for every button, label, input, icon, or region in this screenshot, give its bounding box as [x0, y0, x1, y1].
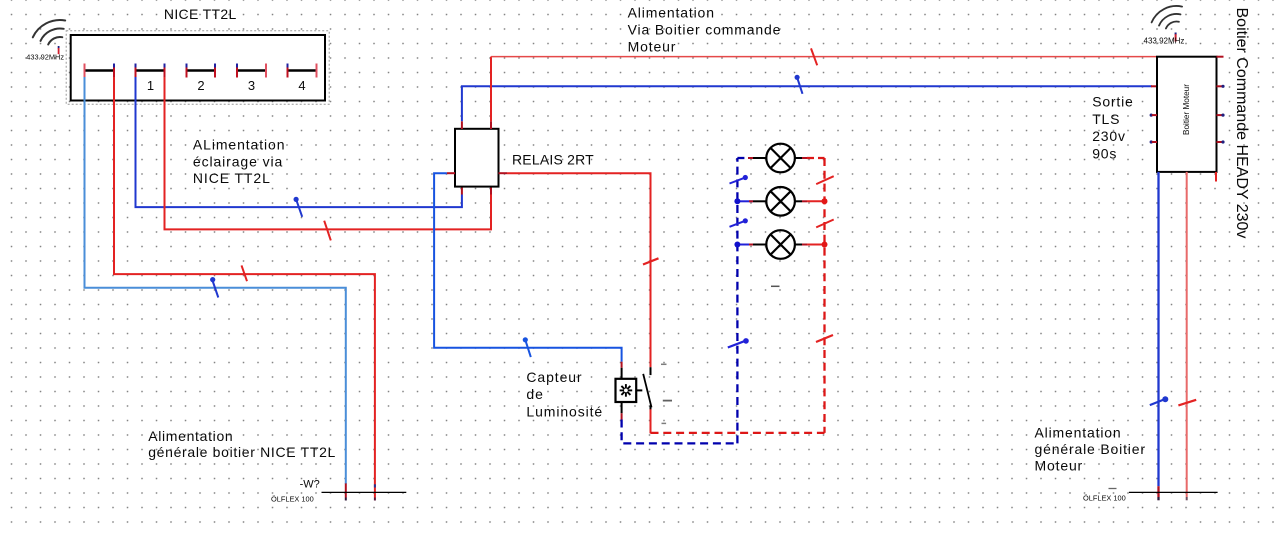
- slash mark blue on long navy wire: [795, 75, 803, 94]
- svg-text:RELAIS 2RT: RELAIS 2RT: [512, 152, 594, 168]
- terminal strip bar 4: [288, 69, 317, 71]
- terminal tick Boitier Moteur right y115: [1217, 114, 1225, 117]
- svg-text:4: 4: [298, 78, 305, 93]
- slash mark red on long red wire: [811, 48, 817, 65]
- wire red RELAIS right pin to switch top contact: [507, 173, 651, 367]
- NICE TT2L box: [71, 35, 325, 101]
- svg-text:433.92MHz: 433.92MHz: [1144, 37, 1185, 46]
- antenna right terminal tick: [1175, 33, 1177, 35]
- slash mark red on W2: [242, 265, 248, 281]
- capteur terminal tick top: [621, 362, 623, 368]
- terminal tick RELAIS bottom-right: [490, 186, 492, 194]
- slash mark red on red bus lower: [816, 220, 834, 228]
- terminal tick RELAIS left: [447, 172, 455, 174]
- svg-text:Boitier Commande HEADY 230v: Boitier Commande HEADY 230v: [1233, 8, 1250, 239]
- capteur de luminosite box: [616, 379, 637, 402]
- capteur terminal tick bottom: [621, 413, 623, 419]
- slash mark blue on bottom-right navy wire: [1150, 396, 1169, 405]
- slash mark red on bottom-right red wire: [1178, 400, 1196, 406]
- capteur top lead: [621, 368, 623, 379]
- switch blade: [643, 374, 651, 408]
- junction dot red L3: [822, 242, 828, 248]
- Boitier Moteur box: [1157, 57, 1217, 172]
- terminal tick Boitier Moteur right top corner: [1217, 56, 1224, 58]
- terminal strip bar 3: [237, 69, 266, 71]
- junction dot blue L2: [734, 198, 740, 204]
- slash mark blue on lamp bus lower: [730, 218, 748, 227]
- selection dashed rect around NICE TT2L: [66, 31, 329, 105]
- terminal tick Boitier Moteur left y115: [1150, 114, 1157, 117]
- terminal tick RELAIS right: [499, 172, 508, 174]
- gray dash above OLFLEX right: [1109, 488, 1117, 490]
- capteur bottom lead: [621, 402, 623, 413]
- slash mark blue on lamp bus upper: [730, 175, 748, 184]
- antenna left terminal tick: [58, 46, 60, 49]
- gray dash under lamps: [771, 285, 780, 287]
- switch fixed contact top: [650, 367, 652, 375]
- slash mark red on W4: [324, 221, 331, 241]
- terminal tick RELAIS bottom-left: [461, 186, 463, 194]
- slash mark red on red bus third: [816, 335, 833, 342]
- slash mark blue on W1: [210, 277, 218, 298]
- wire end tick navy: [1157, 486, 1159, 497]
- dashed navy lamp bus vertical: [736, 158, 738, 443]
- wire red RELAIS top-right pin to long horizontal to Boitier Moteur top: [490, 57, 492, 122]
- svg-text:Boitier Moteur: Boitier Moteur: [1182, 84, 1191, 135]
- svg-text:-W?: -W?: [300, 479, 320, 491]
- slash mark blue on W3: [294, 197, 303, 217]
- stub red Boitier Moteur bottom-right: [1215, 172, 1217, 182]
- wire red Boitier Moteur bottom-middle to cable: [1186, 172, 1188, 497]
- svg-text:NICE TT2L: NICE TT2L: [164, 6, 237, 22]
- slash mark blue on capteur wire: [523, 337, 531, 357]
- slash mark blue on lamp bus third: [728, 338, 749, 347]
- terminal tick RELAIS top-right: [490, 121, 492, 129]
- lamp L3: [737, 244, 753, 246]
- slash mark red on red bus upper: [816, 176, 834, 184]
- svg-text:ÖLFLEX 100: ÖLFLEX 100: [271, 495, 314, 504]
- svg-text:1: 1: [147, 78, 154, 93]
- terminal strip bar 1: [136, 69, 165, 71]
- slash mark red on switch feed wire: [643, 258, 659, 264]
- svg-text:2: 2: [197, 78, 204, 93]
- antenna right 433.92MHz: [1152, 6, 1183, 29]
- terminal tick Boitier Moteur right y142: [1217, 140, 1225, 143]
- relay box RELAIS 2RT: [455, 129, 499, 187]
- wire navy Boitier Moteur bottom-left to cable: [1157, 172, 1159, 486]
- terminal tick Boitier Moteur left y142: [1150, 140, 1157, 143]
- gray dash marks near capteur: [661, 364, 672, 423]
- cable line bottom right: [1129, 491, 1218, 493]
- lamp L2: [737, 200, 753, 202]
- terminal strip bar 0: [85, 69, 115, 71]
- wire navy RELAIS top-left pin to long horizontal to Boitier Moteur: [462, 86, 1152, 121]
- wire navy from terminal 1 left to RELAIS bottom-left pin W3: [136, 77, 462, 207]
- wire blue RELAIS left pin to capteur: [434, 173, 621, 362]
- lamp L1: [737, 157, 748, 159]
- svg-text:3: 3: [248, 78, 255, 93]
- capteur star symbol: [620, 384, 633, 397]
- wire red from terminal 0 right to bottom cable W2: [114, 77, 375, 498]
- dashed red lamp bus vertical: [823, 158, 825, 433]
- wire end tick: [345, 483, 347, 497]
- junction dot red L2: [822, 198, 828, 204]
- dashed red return wire bottom: [651, 432, 825, 434]
- terminal tick RELAIS top-left: [461, 121, 463, 129]
- terminal tick Boitier Moteur right y86: [1217, 85, 1225, 88]
- terminal tick Boitier Moteur left middle: [1151, 85, 1157, 87]
- switch bottom lead: [650, 406, 652, 411]
- svg-text:433.92MHz: 433.92MHz: [26, 53, 64, 62]
- wire light blue from terminal 0 left to bottom cable W1: [85, 77, 346, 484]
- svg-text:ÖLFLEX 100: ÖLFLEX 100: [1083, 494, 1126, 503]
- antenna left 433.92MHz: [33, 20, 65, 44]
- junction dot blue L3: [734, 242, 740, 248]
- capteur actuator stub: [636, 389, 642, 391]
- dashed navy return wire bottom: [622, 420, 738, 444]
- cable line bottom left: [322, 491, 407, 493]
- terminal strip bar 2: [187, 69, 216, 71]
- wire red from terminal 1 right to RELAIS bottom-right pin W4: [165, 77, 492, 229]
- wire red switch bottom to dashed corner: [650, 409, 652, 433]
